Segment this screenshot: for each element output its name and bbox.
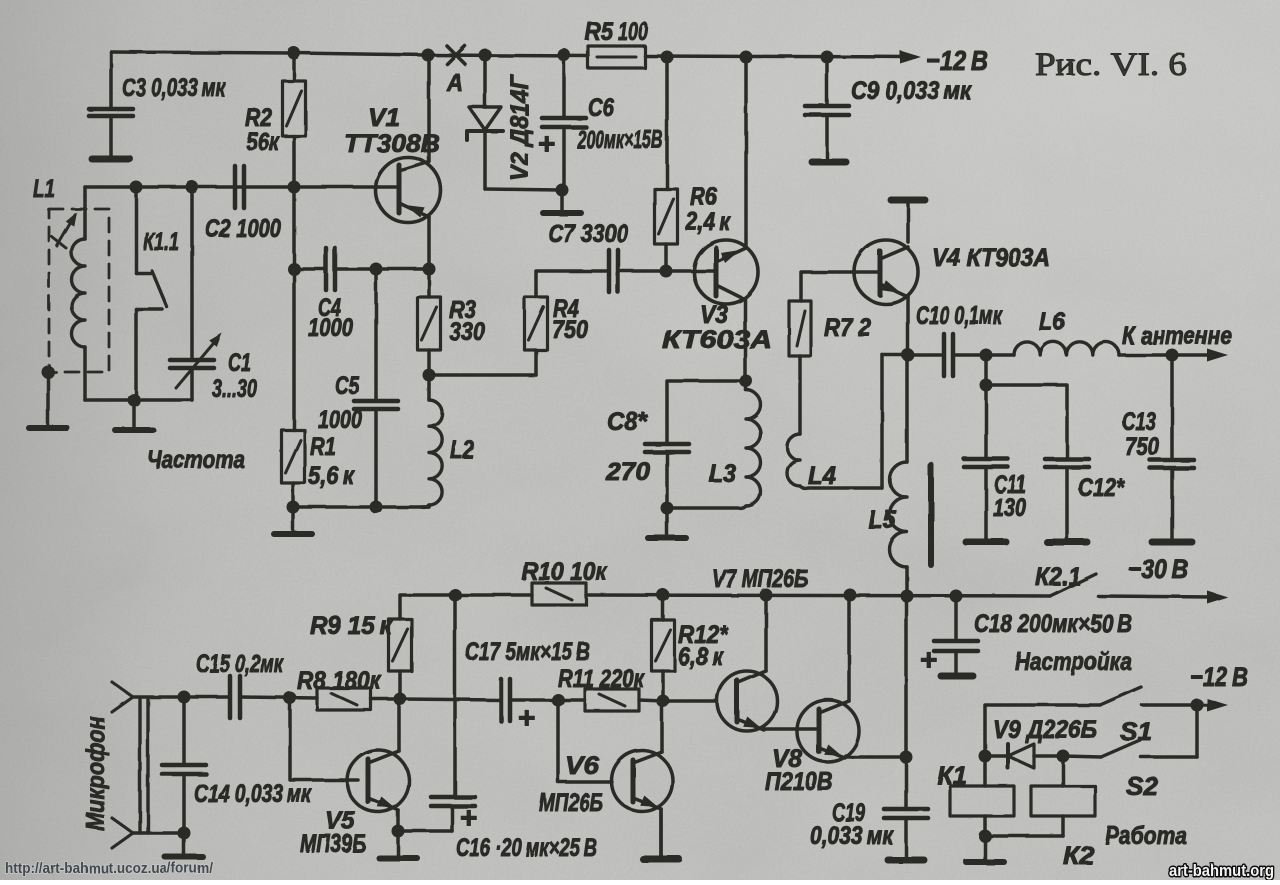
transistor V6 body xyxy=(612,751,673,812)
ground under C11 xyxy=(966,539,1006,546)
svg-text:R6: R6 xyxy=(690,183,718,211)
ground under C6 xyxy=(543,190,581,213)
wire R4 top to C7 xyxy=(536,271,608,297)
inductor L3 xyxy=(667,381,761,508)
wire L5/rail down to C19 xyxy=(904,596,908,809)
transistor V4 emitter arrow xyxy=(881,280,901,293)
svg-text:П210В: П210В xyxy=(765,768,833,796)
wire C7 to V3 base node xyxy=(618,269,666,273)
diode V2 triangle xyxy=(469,107,501,130)
resistor R4 xyxy=(525,297,548,375)
node junction rail/R12 xyxy=(657,589,670,602)
transistor V4 body xyxy=(854,240,918,304)
node junction rail/V8 xyxy=(844,589,857,602)
wire C15 to R8 xyxy=(240,697,317,698)
wire top -12V rail xyxy=(111,52,588,56)
svg-text:+: + xyxy=(538,128,556,161)
ground under C13 xyxy=(1152,539,1192,546)
node junction top rail / V2 xyxy=(479,49,492,62)
resistor R11 xyxy=(558,689,663,711)
svg-text:С14 0,033 мк: С14 0,033 мк xyxy=(194,780,312,808)
capacitor C11 xyxy=(964,385,1008,540)
svg-text:+: + xyxy=(518,702,536,735)
node junction top rail / V1 collector xyxy=(422,49,435,62)
svg-text:L4: L4 xyxy=(808,462,836,490)
wire oscillator bus (V1 base wire) xyxy=(85,185,396,189)
svg-text:V1: V1 xyxy=(368,104,400,132)
svg-text:130: 130 xyxy=(993,494,1026,522)
wire mic bottom xyxy=(133,831,184,835)
capacitor C19 xyxy=(884,809,928,858)
node junction top rail / R6 xyxy=(661,51,674,64)
capacitor C14 xyxy=(162,697,206,833)
ground under C12 xyxy=(1047,539,1087,546)
svg-text:К2.1: К2.1 xyxy=(1035,563,1081,591)
svg-text:ТТ308В: ТТ308В xyxy=(344,130,440,158)
svg-text:С16 ·20 мк×25 В: С16 ·20 мк×25 В xyxy=(456,834,597,862)
capacitor C9 xyxy=(805,57,849,160)
ground under C19 xyxy=(888,857,924,864)
node junction top rail / C6 xyxy=(558,49,571,62)
svg-text:С5: С5 xyxy=(335,372,360,400)
node junction wire2/R2 xyxy=(288,181,301,194)
resistor R3 xyxy=(418,269,441,375)
inductor L6 xyxy=(986,342,1172,355)
relay coil K1 xyxy=(950,756,1014,836)
transistor V8 emitter lead xyxy=(819,748,906,758)
node junction V5 collector xyxy=(394,693,407,706)
capacitor C18 xyxy=(934,596,978,674)
svg-text:http://art-bahmut.ucoz.ua/foru: http://art-bahmut.ucoz.ua/forum/ xyxy=(5,860,214,877)
svg-text:R8 180к: R8 180к xyxy=(297,667,382,695)
node junction R6/V3 base xyxy=(660,265,673,278)
svg-text:С10 0,1мк: С10 0,1мк xyxy=(916,302,1003,330)
transistor V1 emitter lead xyxy=(399,203,429,269)
node junction V8 emitter/C19 line xyxy=(900,751,913,764)
node junction C14 bottom xyxy=(178,827,191,840)
svg-text:L1: L1 xyxy=(33,175,55,203)
capacitor C12 xyxy=(1045,459,1089,540)
capacitor C6 xyxy=(542,55,586,190)
transistor V4 base bar xyxy=(878,251,883,295)
wire K1-K2 bottoms xyxy=(985,834,1063,838)
ground under K1 xyxy=(966,836,1004,862)
inductor L5 xyxy=(890,355,908,596)
transistor V7 emitter arrow xyxy=(743,717,761,729)
node junction shield/ground xyxy=(42,366,55,379)
node A break mark X xyxy=(447,46,465,64)
node junction V4 emitter xyxy=(902,349,915,362)
svg-text:330: 330 xyxy=(449,318,485,346)
svg-text:С3 0,033 мк: С3 0,033 мк xyxy=(122,74,226,102)
ground under L1 shield xyxy=(29,372,67,428)
node junction C15/R8/V5base xyxy=(284,692,297,705)
node junction L6/C13 xyxy=(1166,349,1179,362)
capacitor C5 xyxy=(354,269,398,507)
svg-text:1000: 1000 xyxy=(308,314,353,342)
transistor V8 base bar xyxy=(817,709,822,752)
transistor V5 base bar xyxy=(366,759,371,802)
svg-text:V7 МП26Б: V7 МП26Б xyxy=(712,565,808,593)
switch K2.1 blade xyxy=(1050,574,1096,596)
ground under C9 xyxy=(812,159,846,166)
node junction rail/C18 xyxy=(950,590,963,603)
diode V2 cathode wire xyxy=(483,131,487,189)
capacitor C17 xyxy=(400,679,558,721)
node junction rail/V7 xyxy=(760,589,773,602)
transistor V6 collector lead xyxy=(633,701,662,763)
capacitor C4 xyxy=(294,248,429,290)
wire V2 to C6 bottom xyxy=(485,189,562,190)
transistor V7 base bar xyxy=(735,680,740,722)
wire emitter bus y507 xyxy=(293,505,429,509)
svg-text:С7 3300: С7 3300 xyxy=(548,220,628,248)
transistor V7 emitter lead xyxy=(737,719,819,730)
shield box around L1 (dashed) xyxy=(49,209,109,372)
node junction C11 top xyxy=(980,379,993,392)
transistor V6 emitter arrow xyxy=(640,796,658,808)
resistor R2 xyxy=(283,53,306,187)
transistor V1 base bar xyxy=(397,165,402,213)
diode V9 xyxy=(985,744,1063,768)
svg-text:2,4 к: 2,4 к xyxy=(685,208,731,236)
svg-text:Микрофон: Микрофон xyxy=(82,716,110,831)
svg-text:+: + xyxy=(460,802,478,835)
wire V5 base drop xyxy=(290,698,358,780)
wire C11-C12 top link xyxy=(986,385,1067,459)
transistor V3 body xyxy=(694,240,758,304)
node junction y507/C5 xyxy=(370,501,383,514)
svg-text:V9 Д226Б: V9 Д226Б xyxy=(993,716,1097,744)
ground under mic xyxy=(165,833,203,857)
switch K1.1 xyxy=(136,187,167,400)
node junction top rail / C9 xyxy=(821,51,834,64)
ground under C8 xyxy=(648,508,686,538)
wire V6 base drop xyxy=(558,700,612,782)
svg-text:Настройка: Настройка xyxy=(1015,648,1132,676)
node junction tank bottom/ground xyxy=(128,394,141,407)
node junction V9/K2/S2 xyxy=(1057,750,1070,763)
svg-text:КТ603А: КТ603А xyxy=(662,326,772,354)
capacitor C1 variable xyxy=(170,187,222,400)
node junction K1 ground xyxy=(979,830,992,843)
node junction top rail / V3 emitter xyxy=(740,51,753,64)
transistor V1 emitter arrow (PNP inward) xyxy=(405,205,425,218)
node junction mic/C14 xyxy=(178,691,191,704)
switch S2 xyxy=(1063,705,1197,757)
power arrow -12V lower xyxy=(1207,699,1228,712)
transistor V7 collector lead xyxy=(737,595,766,683)
capacitor C10 xyxy=(908,334,986,376)
wire lower -30V rail mid xyxy=(586,595,1050,596)
svg-text:С17 5мк×15 В: С17 5мк×15 В xyxy=(465,638,590,666)
node junction C17/R11 xyxy=(552,694,565,707)
svg-text:МП39Б: МП39Б xyxy=(300,830,366,858)
svg-text:V3: V3 xyxy=(700,301,728,329)
transistor V6 base bar xyxy=(631,760,636,802)
svg-text:А: А xyxy=(446,69,463,97)
svg-text:L3: L3 xyxy=(709,460,736,488)
wire top rail right of R5 xyxy=(645,56,915,57)
resistor R6 xyxy=(655,57,678,271)
svg-text:R7 2: R7 2 xyxy=(824,314,871,342)
resistor R12 xyxy=(652,595,675,701)
svg-text:−30 В: −30 В xyxy=(1128,554,1188,584)
wire R2bottom down to wire3 xyxy=(292,187,296,269)
svg-text:R10 10к: R10 10к xyxy=(522,558,608,586)
wire mic top to C15 xyxy=(133,695,230,699)
wire lower -30V rail left xyxy=(400,595,532,619)
ground under C18 xyxy=(941,673,973,680)
capacitor C2 xyxy=(235,166,244,208)
resistor R1 xyxy=(282,269,305,507)
ground under C3 xyxy=(92,156,130,163)
svg-text:МП26Б: МП26Б xyxy=(539,789,603,817)
svg-text:С15 0,2мк: С15 0,2мк xyxy=(196,650,284,678)
relay coil K2 xyxy=(1031,756,1095,836)
power arrow -30V xyxy=(1207,591,1228,604)
svg-text:100: 100 xyxy=(618,18,648,46)
svg-text:56к: 56к xyxy=(246,128,280,156)
transistor V5 collector lead xyxy=(368,699,399,763)
node junction wire2/K1.1 xyxy=(130,181,143,194)
wire V7 base xyxy=(663,699,717,703)
node junction wire2/C1 xyxy=(186,181,199,194)
node junction wire3 left xyxy=(288,263,301,276)
svg-text:К2: К2 xyxy=(1063,842,1094,870)
svg-text:art-bahmut.org: art-bahmut.org xyxy=(1169,861,1274,880)
svg-text:750: 750 xyxy=(552,316,588,344)
node junction V9/K1 xyxy=(979,750,992,763)
inductor L1 tuning arrow xyxy=(52,212,77,248)
transistor V8 collector lead xyxy=(819,595,849,713)
wire S1 branch xyxy=(985,705,1100,756)
node junction wire3/R3 xyxy=(423,263,436,276)
wire C8 branch xyxy=(667,381,746,444)
svg-text:С1: С1 xyxy=(228,349,251,377)
node junction V3 collector/L3 xyxy=(740,375,753,388)
wire R8 to V5 collector node xyxy=(371,697,400,701)
transistor V1 body xyxy=(376,158,441,223)
antenna arrow xyxy=(1207,349,1228,362)
node junction L2 top xyxy=(423,369,436,382)
svg-text:R11 220к: R11 220к xyxy=(558,665,645,693)
power arrow -12V top rail xyxy=(900,51,921,64)
svg-text:С12*: С12* xyxy=(1078,474,1125,502)
svg-text:L2: L2 xyxy=(450,436,474,464)
svg-text:L6: L6 xyxy=(1039,308,1066,336)
svg-text:С8*: С8* xyxy=(607,408,648,436)
node junction S1/S2 xyxy=(1191,699,1204,712)
node junction wire3/C5 xyxy=(370,263,383,276)
svg-text:S2: S2 xyxy=(1126,773,1158,801)
svg-text:Частота: Частота xyxy=(147,446,245,474)
svg-text:3...30: 3...30 xyxy=(212,375,257,403)
wire rail to -30V arrow xyxy=(1098,596,1214,597)
svg-text:V6: V6 xyxy=(565,752,600,780)
svg-text:V4 КТ903А: V4 КТ903А xyxy=(932,244,1050,272)
svg-text:+: + xyxy=(920,644,938,677)
microphone arrows xyxy=(112,682,133,848)
ground under V6 xyxy=(643,809,679,859)
resistor R8 xyxy=(317,688,371,710)
transistor V4 emitter lead xyxy=(880,284,908,355)
transistor V5 emitter arrow xyxy=(377,797,395,809)
capacitor C7 xyxy=(609,250,618,292)
resistor R9 xyxy=(389,619,412,699)
resistor R7 xyxy=(789,301,811,356)
transistor V7 body xyxy=(717,671,777,731)
inductor L2 xyxy=(421,375,442,507)
node junction top rail / R2 xyxy=(288,47,301,60)
svg-text:R5: R5 xyxy=(585,18,614,46)
transistor V1 collector lead xyxy=(399,55,429,171)
node junction R11/R12/V7 base xyxy=(657,695,670,708)
capacitor C8 xyxy=(645,444,689,508)
transistor V6 emitter lead xyxy=(633,798,661,858)
transistor V4 base wire xyxy=(801,272,880,301)
inductor L4 xyxy=(787,355,908,488)
node junction V5 emitter xyxy=(392,825,405,838)
svg-text:С18 200мк×50 В: С18 200мк×50 В xyxy=(974,610,1132,638)
transistor V5 emitter lead xyxy=(368,798,398,831)
wire C10 node down xyxy=(984,355,988,385)
transistor V3 base bar xyxy=(714,248,719,296)
wire S1 to -12V arrow xyxy=(1142,703,1214,707)
transistor V3 collector lead down xyxy=(716,285,745,381)
transformer core bar xyxy=(928,465,934,565)
svg-text:−12 В: −12 В xyxy=(926,45,988,76)
svg-text:С13: С13 xyxy=(1122,408,1156,436)
svg-text:0,033 мк: 0,033 мк xyxy=(810,822,894,850)
svg-text:С6: С6 xyxy=(588,94,615,122)
transistor V8 body xyxy=(797,700,859,762)
transistor V3 emitter arrow xyxy=(721,250,741,263)
svg-text:Рис. VI. 6: Рис. VI. 6 xyxy=(1035,47,1187,83)
ground under R1 xyxy=(274,507,312,534)
inductor L1 coil xyxy=(72,187,86,400)
svg-text:200мк×15В: 200мк×15В xyxy=(576,126,663,154)
svg-text:5,6 к: 5,6 к xyxy=(308,462,355,490)
svg-text:С9 0,033 мк: С9 0,033 мк xyxy=(851,77,972,105)
node junction C6/V2 ground xyxy=(556,184,569,197)
svg-text:V2 Д814Г: V2 Д814Г xyxy=(506,73,534,181)
ground under tank xyxy=(115,400,153,430)
svg-text:1000: 1000 xyxy=(318,406,362,434)
ground under V5 xyxy=(379,831,417,858)
transistor V5 body xyxy=(347,750,409,812)
capacitor C3 xyxy=(89,52,133,156)
svg-text:−12 В: −12 В xyxy=(1190,662,1248,692)
diode V2 cathode bar xyxy=(467,131,503,140)
svg-text:С2 1000: С2 1000 xyxy=(205,215,281,243)
wire V5 emitter to C16 xyxy=(398,829,452,833)
svg-text:L5: L5 xyxy=(868,506,897,534)
resistor R5 xyxy=(588,46,645,68)
transistor V4 collector lead xyxy=(880,247,908,259)
wire antenna output xyxy=(1172,353,1214,357)
microphone element lines xyxy=(140,699,148,833)
svg-text:R1: R1 xyxy=(310,433,336,461)
wire tank bottom xyxy=(85,398,192,402)
wire R3-R4 bottoms xyxy=(429,373,536,377)
node junction y507/R1 xyxy=(287,501,300,514)
transistor V3 emitter lead up xyxy=(718,57,746,261)
transistor V8 emitter arrow xyxy=(824,745,842,757)
svg-text:К1.1: К1.1 xyxy=(143,228,179,256)
node junction C10/L6 xyxy=(980,349,993,362)
svg-text:270: 270 xyxy=(605,458,650,486)
svg-text:6,8 к: 6,8 к xyxy=(678,643,724,671)
transistor V3 base wire xyxy=(666,269,716,273)
resistor R10 in rail xyxy=(532,583,586,605)
node junction C8/L3 bottom xyxy=(661,502,674,515)
node junction rail/C16 xyxy=(449,589,462,602)
capacitor C16 xyxy=(431,595,475,831)
diode V2 anode wire xyxy=(483,55,487,107)
svg-text:Работа: Работа xyxy=(1105,822,1187,850)
svg-text:750: 750 xyxy=(1125,433,1159,461)
capacitor C13 xyxy=(1150,355,1194,540)
transistor V4 collector top bar xyxy=(891,200,925,242)
svg-text:К1: К1 xyxy=(937,762,967,790)
svg-text:К антенне: К антенне xyxy=(1122,322,1232,350)
svg-text:R9 15 к: R9 15 к xyxy=(310,612,393,640)
node junction rail/L5 xyxy=(901,590,914,603)
capacitor C15 xyxy=(230,676,240,718)
switch S1 blade xyxy=(1100,687,1141,705)
